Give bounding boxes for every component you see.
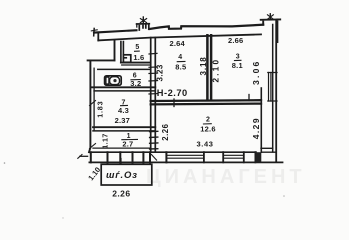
- band wide box diagonal tick: [151, 154, 156, 160]
- svg-text:5: 5: [135, 44, 139, 51]
- left inner wall: [93, 68, 95, 130]
- divider wall rooms 4|3: [206, 35, 209, 100]
- right wall window caps: [268, 73, 277, 102]
- svg-text:2.66: 2.66: [228, 36, 243, 45]
- svg-text:3.06: 3.06: [251, 59, 261, 85]
- spine wall right line: [154, 38, 156, 153]
- svg-text:3: 3: [236, 54, 240, 61]
- room 6 bottom wall: [90, 86, 155, 88]
- svg-text:4: 4: [178, 54, 182, 61]
- balcony box: [101, 164, 152, 185]
- toilet bowl dot: [113, 79, 116, 82]
- left step vertical V3: [114, 41, 116, 61]
- chimney 2 star: [269, 14, 271, 20]
- right strip bottom closure: [261, 147, 273, 149]
- band cell separators: [91, 152, 167, 162]
- svg-text:4.29: 4.29: [251, 117, 261, 139]
- room 1 floor line: [93, 147, 151, 149]
- right wall window lines: [269, 73, 271, 102]
- top wall left end tick: [93, 28, 96, 35]
- svg-text:Н-2.70: Н-2.70: [157, 88, 188, 98]
- right inner wall: [272, 25, 274, 153]
- svg-text:2.64: 2.64: [170, 39, 186, 48]
- room 5 door square: [123, 55, 130, 63]
- svg-text:8.1: 8.1: [232, 61, 243, 70]
- svg-text:8.5: 8.5: [175, 63, 186, 72]
- room 2 right wall: [260, 88, 262, 152]
- top wall inner line: [98, 34, 261, 40]
- toilet icon outer: [105, 76, 122, 85]
- right outer wall: [275, 20, 277, 161]
- band window triple lines A: [166, 155, 204, 158]
- svg-text:1.83: 1.83: [96, 101, 105, 118]
- svg-text:3.18: 3.18: [199, 56, 208, 75]
- room 5 left wall: [121, 42, 124, 63]
- svg-text:шѓ.Оз: шѓ.Оз: [106, 170, 138, 181]
- svg-text:2.7: 2.7: [122, 140, 133, 149]
- left wall slash ticks: [90, 101, 96, 106]
- svg-text:ЦИАНАГЕНТ: ЦИАНАГЕНТ: [146, 166, 306, 188]
- svg-text:2.26: 2.26: [161, 123, 170, 140]
- svg-text:12.6: 12.6: [200, 125, 215, 134]
- svg-text:4.3: 4.3: [118, 106, 129, 115]
- toilet cistern: [106, 77, 109, 84]
- spine ladder rungs (room1/room2 wall hatch): [150, 131, 158, 149]
- bottom band top line: [89, 151, 256, 153]
- band right dark cell: [255, 152, 261, 162]
- svg-text:1.17: 1.17: [101, 133, 110, 149]
- top outer wall: [94, 30, 137, 32]
- band white box B: [244, 152, 256, 162]
- left step horizontal H3: [88, 59, 115, 61]
- room 7 bottom wall: [93, 126, 155, 128]
- specks: [4, 162, 6, 164]
- spine ticks: [149, 53, 157, 94]
- chimney 1 star: [142, 17, 144, 24]
- chimney 2: [261, 19, 281, 42]
- hall wall tick up: [248, 95, 250, 101]
- left outer wall: [89, 60, 90, 152]
- svg-text:2.26: 2.26: [112, 189, 130, 199]
- left step: vertical from top wall: [97, 34, 99, 41]
- svg-text:2: 2: [206, 117, 210, 124]
- dim stub 1.10: [80, 155, 88, 157]
- band white box A: [204, 152, 223, 162]
- balcony lead line: [120, 159, 122, 165]
- svg-text:2.37: 2.37: [115, 116, 130, 125]
- svg-text:3.2: 3.2: [130, 79, 141, 88]
- svg-text:2.10: 2.10: [212, 58, 221, 83]
- svg-text:3.23: 3.23: [156, 64, 165, 81]
- band window triple lines B: [223, 155, 244, 158]
- hall wall plus tick: [173, 99, 175, 107]
- chimney 1: [137, 24, 150, 30]
- room 6 top wall: [98, 68, 151, 70]
- room 5 bottom wall: [121, 62, 151, 64]
- hall bottom wall (room2 top wall): [151, 99, 261, 102]
- spine wall left line: [150, 38, 152, 153]
- bottom band bottom line: [89, 161, 282, 163]
- toilet bowl: [110, 77, 120, 85]
- svg-text:1.6: 1.6: [133, 53, 144, 62]
- svg-text:3.43: 3.43: [197, 140, 214, 149]
